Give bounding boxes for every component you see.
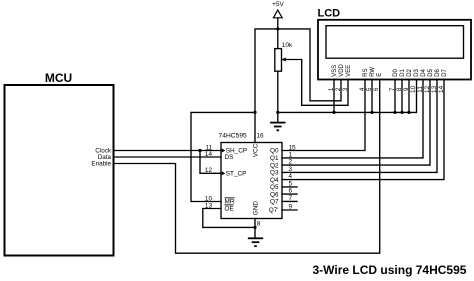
svg-text:Q7: Q7	[270, 199, 279, 206]
node VSS/ground junction	[332, 111, 335, 114]
svg-text:LCD: LCD	[318, 8, 341, 20]
svg-text:VCC: VCC	[252, 143, 259, 157]
svg-text:D5: D5	[428, 68, 434, 76]
node OE/GND junction	[253, 226, 256, 229]
wire LCD D2 to ground rail	[408, 80, 410, 113]
svg-text:Q5: Q5	[270, 184, 279, 191]
svg-text:10k: 10k	[282, 42, 293, 49]
wiper arrow	[282, 58, 286, 62]
svg-text:2: 2	[289, 159, 293, 166]
svg-text:14: 14	[438, 85, 445, 93]
svg-text:Q3: Q3	[270, 170, 279, 177]
svg-text:13: 13	[205, 202, 213, 209]
svg-text:3: 3	[342, 87, 349, 91]
node clock/ST_CP junction	[198, 149, 201, 152]
wire Q4 to LCD D7	[282, 80, 444, 180]
svg-text:1: 1	[328, 87, 335, 91]
wire +5V rail to VCC and LCD VDD	[255, 29, 341, 143]
svg-text:10: 10	[410, 85, 417, 93]
wire Q0 to LCD RS	[282, 80, 365, 151]
svg-text:8: 8	[257, 221, 261, 228]
wire Q1 to LCD D4	[282, 80, 423, 158]
svg-text:2: 2	[335, 87, 342, 91]
svg-text:RW: RW	[370, 67, 376, 77]
LCD outer box	[318, 20, 471, 80]
svg-text:6: 6	[373, 87, 380, 91]
pin arrow SH_CP	[222, 148, 225, 152]
svg-text:8: 8	[396, 87, 403, 91]
svg-text:MCU: MCU	[45, 71, 72, 85]
svg-text:D6: D6	[435, 68, 441, 76]
svg-text:9: 9	[289, 203, 293, 210]
wire Q2 to LCD D5	[282, 80, 430, 166]
svg-text:Q4: Q4	[270, 177, 279, 184]
svg-text:E: E	[377, 73, 383, 77]
IC U1 74HC595 box	[221, 143, 282, 219]
svg-text:Q1: Q1	[270, 155, 279, 162]
svg-text:5: 5	[289, 180, 293, 187]
svg-text:13: 13	[431, 85, 438, 93]
wire Data (MCU to DS)	[114, 156, 222, 158]
svg-text:6: 6	[289, 188, 293, 195]
svg-text:11: 11	[417, 86, 424, 93]
wire Q7' stub	[282, 209, 297, 211]
node +5V rail junction	[276, 27, 279, 30]
svg-text:D4: D4	[421, 68, 427, 76]
wire pot wiper to LCD VEE	[282, 60, 349, 106]
potentiometer R1 body	[275, 49, 282, 72]
svg-text:D3: D3	[414, 68, 420, 76]
pin arrow ST_CP	[222, 171, 225, 175]
node RW/ground junction	[370, 111, 373, 114]
wire Q6 stub	[282, 193, 297, 195]
svg-text:5: 5	[366, 87, 373, 91]
LCD inner display box	[326, 26, 464, 59]
svg-text:D7: D7	[442, 68, 448, 76]
wire MR pull-up to +5V	[191, 112, 255, 201]
MCU box	[5, 85, 114, 256]
svg-text:12: 12	[205, 167, 213, 174]
node D1/ground junction	[400, 111, 403, 114]
svg-text:3: 3	[289, 166, 293, 173]
svg-text:VEE: VEE	[346, 65, 352, 77]
svg-text:VSS: VSS	[332, 65, 338, 77]
svg-text:16: 16	[257, 132, 265, 139]
svg-text:Q2: Q2	[270, 162, 279, 169]
wire Q7 stub	[282, 200, 297, 202]
svg-text:Q0: Q0	[270, 148, 279, 155]
svg-text:D0: D0	[393, 68, 399, 76]
wire Clock (MCU to SH_CP)	[114, 150, 222, 152]
wire LCD VSS to ground rail	[333, 80, 335, 113]
wire ground rail to LCD D3	[278, 80, 417, 113]
svg-text:4: 4	[289, 173, 293, 180]
svg-text:3-Wire LCD using 74HC595: 3-Wire LCD using 74HC595	[313, 263, 467, 277]
svg-text:Q7': Q7'	[269, 207, 279, 214]
wire LCD RW to ground rail	[371, 80, 373, 113]
node pot/ground junction	[276, 111, 279, 114]
svg-text:D1: D1	[400, 68, 406, 76]
svg-text:RS: RS	[363, 68, 369, 76]
svg-text:74HC595: 74HC595	[219, 132, 248, 139]
wire Clock branch to ST_CP	[200, 151, 221, 174]
svg-text:Q6: Q6	[270, 191, 279, 198]
power +5V symbol	[273, 10, 282, 18]
svg-text:9: 9	[403, 87, 410, 91]
svg-text:7: 7	[389, 87, 396, 91]
svg-text:ST_CP: ST_CP	[226, 171, 247, 178]
wire pot bottom to ground	[277, 71, 279, 122]
svg-text:10: 10	[205, 195, 213, 202]
svg-text:7: 7	[289, 195, 293, 202]
wire Enable (MCU down and right to LCD E)	[114, 80, 380, 254]
wire LCD D1 to ground rail	[401, 80, 403, 113]
svg-text:1: 1	[289, 151, 293, 158]
svg-text:GND: GND	[252, 201, 259, 216]
wire OE to ground	[203, 209, 255, 228]
ground under pot	[270, 123, 285, 131]
svg-text:14: 14	[205, 151, 213, 158]
svg-text:4: 4	[359, 87, 366, 91]
wire +5V stem to pot top	[277, 12, 279, 49]
svg-text:OE: OE	[225, 206, 234, 213]
node D0/ground junction	[393, 111, 396, 114]
svg-text:+5V: +5V	[272, 1, 284, 8]
wire Q3 to LCD D6	[282, 80, 437, 173]
svg-text:Enable: Enable	[91, 161, 111, 168]
wire GND pin 8 down	[254, 219, 256, 239]
wire LCD D0 to ground rail	[394, 80, 396, 113]
node MR/VCC junction	[253, 111, 256, 114]
wire Q5 stub	[282, 186, 297, 188]
svg-text:VDD: VDD	[339, 63, 345, 76]
svg-text:D2: D2	[407, 68, 413, 76]
node D2/ground junction	[407, 111, 410, 114]
svg-text:12: 12	[424, 85, 431, 93]
ground under 74HC595	[248, 238, 263, 246]
svg-text:DS: DS	[225, 154, 234, 161]
